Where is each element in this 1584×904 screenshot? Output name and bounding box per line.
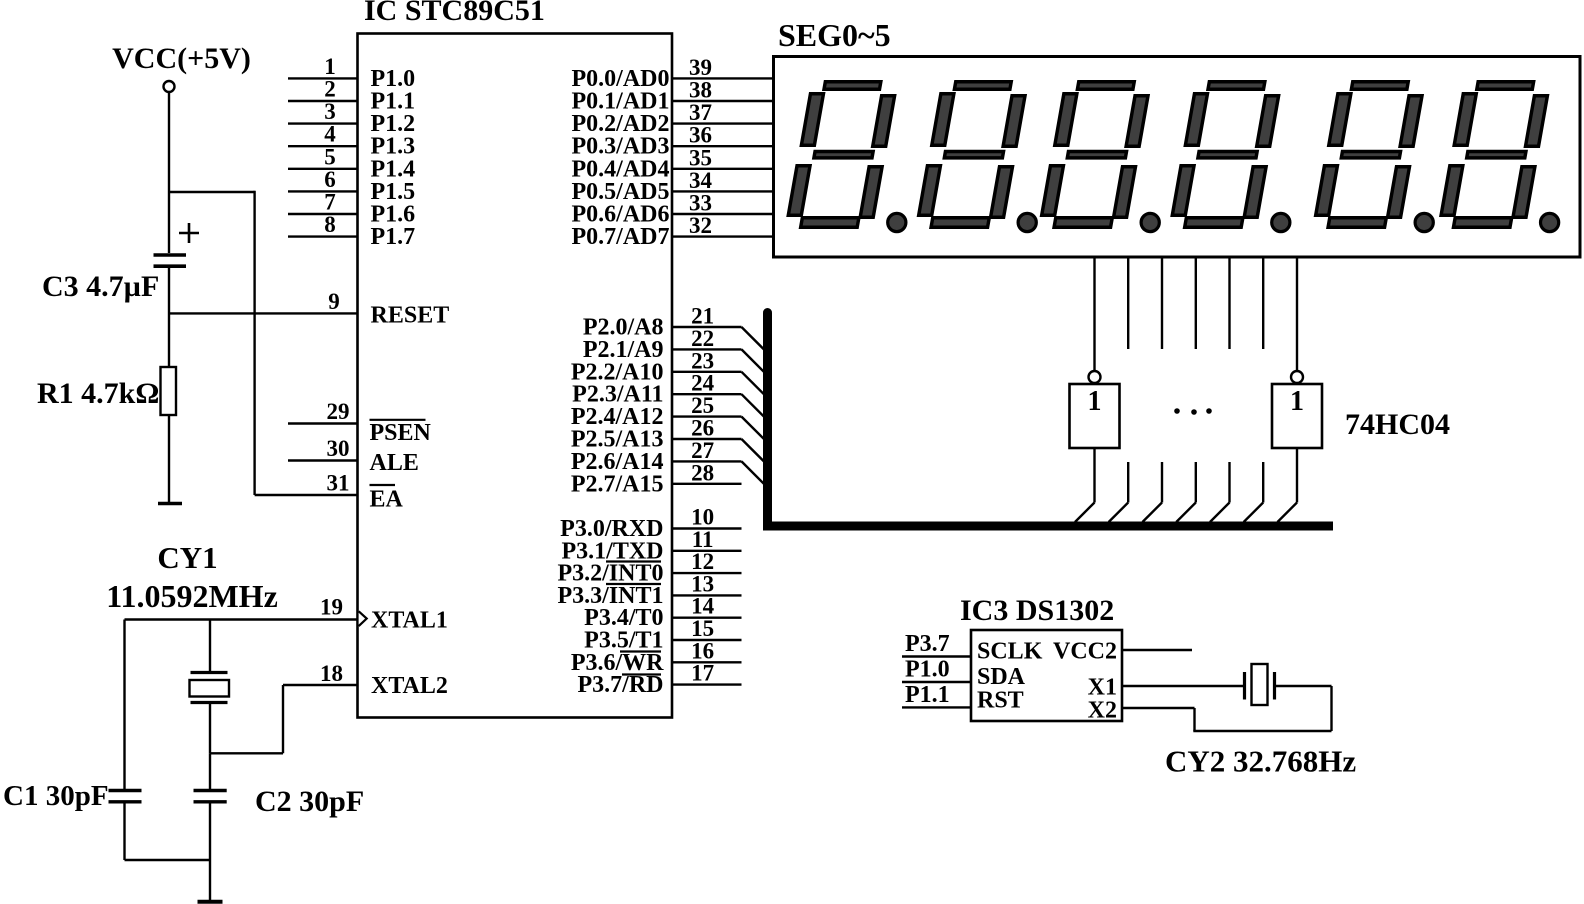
wire pin 12	[672, 572, 742, 574]
svg-text:15: 15	[691, 616, 714, 641]
wire digit drive stub 2	[1161, 462, 1163, 503]
wire pin 35 to display	[672, 168, 774, 170]
wire pin 25	[672, 415, 742, 417]
wire pin 33 to display	[672, 213, 774, 215]
wire P3.7 to SCLK	[902, 655, 971, 657]
wire pin 24	[672, 393, 742, 395]
crystal CY1 bottom plate	[191, 701, 228, 704]
svg-text:33: 33	[689, 191, 712, 216]
pin label WR overline	[620, 650, 661, 652]
svg-text:18: 18	[320, 661, 343, 686]
wire pin 28	[672, 483, 742, 485]
wire inverter U2A output	[1093, 448, 1095, 503]
wire pin 25 diagonal to bus	[742, 417, 769, 444]
svg-text:12: 12	[691, 549, 714, 574]
wire pin 38 to display	[672, 100, 774, 102]
wire digit drive stub 5	[1262, 462, 1264, 503]
wire pin 16	[672, 661, 742, 663]
svg-text:4: 4	[324, 122, 336, 147]
wire display select 1 to inverter	[1093, 258, 1095, 371]
svg-text:19: 19	[320, 595, 343, 620]
wire pin 10	[672, 527, 742, 529]
wire pin 23 diagonal to bus	[742, 372, 769, 399]
wire pin 34 to display	[672, 190, 774, 192]
svg-text:25: 25	[691, 393, 714, 418]
svg-text:38: 38	[689, 78, 712, 103]
wire pin 5	[288, 168, 358, 170]
svg-text:CY1: CY1	[157, 540, 217, 575]
svg-text:IC3 DS1302: IC3 DS1302	[960, 594, 1114, 627]
wire C2 to ground	[209, 803, 211, 901]
wire pin 1	[288, 77, 358, 79]
crystal CY1 body	[190, 680, 230, 697]
7-segment digit 2	[917, 82, 1028, 228]
pin 19 XTAL1 arrow	[359, 611, 367, 626]
svg-text:VCC(+5V): VCC(+5V)	[112, 42, 251, 75]
ground below C2	[198, 900, 223, 904]
wire XTAL1 net	[125, 618, 358, 620]
crystal CY2 left plate	[1243, 672, 1246, 700]
svg-text:22: 22	[691, 326, 714, 351]
wire CY1 top lead	[209, 620, 211, 673]
svg-text:CY2 32.768Hz: CY2 32.768Hz	[1165, 744, 1356, 779]
svg-text:6: 6	[324, 167, 336, 192]
svg-text:37: 37	[689, 100, 712, 125]
wire CY1 bottom lead	[209, 703, 211, 754]
svg-text:SCLK: SCLK	[977, 639, 1043, 665]
wire pin 17	[672, 683, 742, 685]
svg-text:23: 23	[691, 348, 714, 373]
wire pin 36 to display	[672, 145, 774, 147]
inverter U2A bubble	[1089, 371, 1101, 383]
decimal point digit 6	[1541, 213, 1559, 231]
capacitor C1 bottom plate	[109, 800, 142, 803]
capacitor C3 plus sign	[179, 232, 199, 235]
svg-text:21: 21	[691, 304, 714, 329]
decimal point digit 2	[1018, 213, 1036, 231]
svg-text:R1 4.7kΩ: R1 4.7kΩ	[37, 377, 159, 410]
wire C3 to R1	[168, 268, 170, 367]
svg-text:14: 14	[691, 594, 715, 619]
decimal point digit 5	[1415, 213, 1433, 231]
svg-text:SEG0~5: SEG0~5	[778, 17, 891, 53]
wire pin 22 diagonal to bus	[742, 349, 769, 376]
svg-text:P2.7/A15: P2.7/A15	[571, 471, 664, 497]
svg-text:EA: EA	[370, 487, 404, 513]
wire pin 37 to display	[672, 122, 774, 124]
svg-text:ALE: ALE	[370, 450, 419, 476]
svg-text:8: 8	[324, 212, 336, 237]
wire pin 2	[288, 100, 358, 102]
crystal CY2 body	[1252, 664, 1268, 705]
svg-text:29: 29	[327, 399, 350, 424]
wire display select 7 to inverter	[1296, 258, 1298, 371]
capacitor C2 bottom plate	[194, 800, 227, 803]
display module box	[774, 57, 1581, 258]
svg-text:11.0592MHz: 11.0592MHz	[106, 578, 278, 614]
pin label PSEN overline	[370, 419, 426, 421]
inverter U2A body	[1070, 384, 1120, 448]
svg-text:74HC04: 74HC04	[1345, 408, 1450, 441]
svg-text:XTAL2: XTAL2	[371, 673, 448, 699]
svg-text:30: 30	[327, 436, 350, 461]
svg-text:24: 24	[691, 371, 715, 396]
svg-text:P3.7/RD: P3.7/RD	[578, 672, 664, 698]
svg-text:1: 1	[324, 54, 336, 79]
svg-text:VCC2: VCC2	[1053, 639, 1117, 665]
wire pin 11	[672, 550, 742, 552]
wire pin 13	[672, 594, 742, 596]
svg-text:7: 7	[324, 190, 336, 215]
wire EA column vertical	[253, 191, 255, 495]
wire pin 8	[288, 235, 358, 237]
wire pin 14	[672, 617, 742, 619]
wire pin 7	[288, 213, 358, 215]
svg-text:X2: X2	[1088, 698, 1117, 724]
svg-text:26: 26	[691, 416, 714, 441]
wire pin 22	[672, 348, 742, 350]
capacitor C3 bottom plate	[154, 264, 187, 268]
decimal point digit 4	[1272, 213, 1290, 231]
inverter U2B bubble	[1291, 371, 1303, 383]
wire R1 to ground	[168, 415, 170, 503]
svg-text:1: 1	[1088, 386, 1102, 417]
ground below R1	[158, 502, 182, 506]
svg-text:34: 34	[689, 168, 713, 193]
svg-text:16: 16	[691, 638, 714, 663]
svg-text:RESET: RESET	[371, 303, 450, 329]
wire pin 27 diagonal to bus	[742, 461, 769, 488]
svg-text:P1.7: P1.7	[371, 224, 416, 250]
svg-text:28: 28	[691, 460, 714, 485]
svg-text:27: 27	[691, 438, 714, 463]
wire pin 15	[672, 639, 742, 641]
wire pin 24 diagonal to bus	[742, 394, 769, 421]
wire P1.0 to SDA	[902, 681, 971, 683]
crystal CY2 right plate	[1273, 672, 1276, 700]
svg-text:32: 32	[689, 213, 712, 238]
wire pin 26 diagonal to bus	[742, 439, 769, 466]
pin label INT0 overline	[606, 560, 661, 562]
wire EA column to pin31	[255, 494, 358, 496]
decimal point digit 1	[888, 213, 906, 231]
svg-text:13: 13	[691, 571, 714, 596]
wire X1 to CY2	[1122, 685, 1243, 687]
wire digit drive stub 4	[1228, 462, 1230, 503]
svg-text:SDA: SDA	[977, 664, 1026, 690]
svg-text:IC STC89C51: IC STC89C51	[364, 0, 545, 27]
decimal point digit 3	[1141, 213, 1159, 231]
svg-text:35: 35	[689, 145, 712, 170]
wire pin 27	[672, 460, 742, 462]
svg-text:PSEN: PSEN	[370, 420, 432, 446]
capacitor C2 top plate	[194, 789, 227, 792]
capacitor C3 top plate	[154, 253, 187, 257]
svg-text:C3 4.7µF: C3 4.7µF	[42, 270, 159, 303]
svg-text:9: 9	[328, 289, 340, 314]
svg-text:31: 31	[327, 471, 350, 496]
wire VCC down to C3	[168, 92, 170, 253]
wire display select 4	[1195, 258, 1197, 349]
wire display select 6	[1262, 258, 1264, 349]
wire X2 to CY2	[1122, 707, 1195, 709]
svg-text:2: 2	[324, 77, 336, 102]
svg-text:P1.0: P1.0	[905, 657, 950, 683]
wire pin 30	[288, 459, 358, 461]
7-segment digit 3	[1040, 82, 1151, 228]
wire display select 2	[1127, 258, 1129, 349]
wire CY1 to C2	[209, 753, 211, 789]
ellipsis dots between inverters	[1174, 408, 1180, 414]
wire pin 26	[672, 438, 742, 440]
bus P2 to digit drivers	[768, 313, 1334, 526]
wire digit drive stub 3	[1195, 462, 1197, 503]
wire display select 3	[1161, 258, 1163, 349]
svg-text:3: 3	[324, 99, 336, 124]
7-segment digit 4	[1170, 82, 1281, 228]
pin label EA overline	[370, 484, 396, 486]
wire pin 32 to display	[672, 235, 774, 237]
svg-text:P3.7: P3.7	[905, 631, 950, 657]
svg-text:P1.1: P1.1	[905, 682, 950, 708]
wire P1.1 to RST	[902, 706, 971, 708]
IC U1 STC89C51 body	[358, 34, 673, 718]
wire VCC2 stub	[1122, 649, 1192, 651]
svg-text:C2 30pF: C2 30pF	[255, 785, 364, 818]
svg-text:XTAL1: XTAL1	[371, 608, 448, 634]
pin label INT1 overline	[606, 583, 661, 585]
svg-text:5: 5	[324, 144, 336, 169]
svg-text:RST: RST	[977, 688, 1024, 714]
pin label RD overline	[622, 673, 661, 675]
wire digit drive stub 1	[1127, 462, 1129, 503]
wire left cap column	[123, 620, 125, 790]
wire C1 to C2 junction	[125, 859, 211, 861]
svg-text:10: 10	[691, 505, 714, 530]
IC IC3 DS1302 body	[971, 630, 1122, 721]
wire C1 bottom	[123, 803, 125, 860]
wire pin 21 diagonal to bus	[742, 327, 769, 354]
inverter U2B body	[1272, 384, 1322, 448]
crystal CY1 top plate	[191, 671, 228, 674]
wire pin 39 to display	[672, 77, 774, 79]
svg-text:17: 17	[691, 661, 714, 686]
wire pin 23	[672, 371, 742, 373]
wire CY1 to XTAL2 horizontal	[210, 752, 283, 754]
wire branch VCC to EA column	[169, 191, 255, 193]
svg-text:11: 11	[692, 527, 714, 552]
7-segment digit 5	[1314, 82, 1425, 228]
wire pin 6	[288, 190, 358, 192]
7-segment digit 1	[786, 82, 897, 228]
wire pin 3	[288, 122, 358, 124]
wire RESET net	[169, 312, 358, 314]
resistor R1	[161, 367, 177, 415]
svg-text:C1 30pF: C1 30pF	[3, 780, 109, 812]
svg-text:P0.7/AD7: P0.7/AD7	[572, 224, 670, 250]
node VCC terminal circle	[164, 81, 175, 92]
capacitor C1 top plate	[109, 789, 142, 792]
wire inverter U2B output	[1296, 448, 1298, 503]
wire display select 5	[1228, 258, 1230, 349]
wire pin 21	[672, 326, 742, 328]
7-segment digit 6	[1439, 82, 1550, 228]
wire XTAL2 vertical	[282, 685, 284, 753]
svg-text:36: 36	[689, 123, 712, 148]
wire pin 29	[288, 422, 358, 424]
svg-text:39: 39	[689, 55, 712, 80]
svg-text:1: 1	[1290, 386, 1304, 417]
wire pin 4	[288, 145, 358, 147]
wire XTAL2 net	[283, 684, 358, 686]
